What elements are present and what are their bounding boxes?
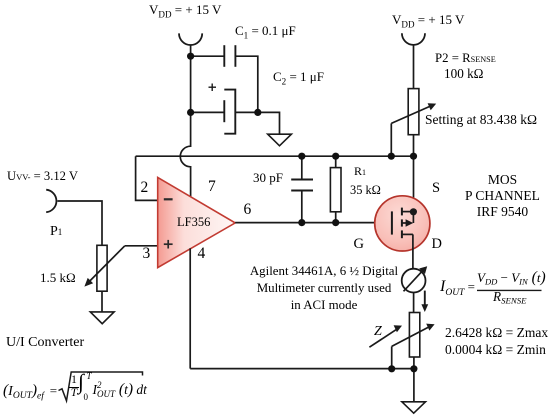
wire pin4 bbox=[189, 248, 191, 368]
label G bbox=[354, 237, 364, 252]
MOSFET channel bottom bbox=[402, 230, 413, 238]
capacitor C2 bbox=[224, 90, 235, 134]
transistor Q1 MOSFET body bbox=[375, 196, 430, 251]
pin 6 bbox=[244, 202, 252, 218]
label LF356 bbox=[177, 216, 210, 229]
label Zmin bbox=[445, 343, 546, 357]
label P2 bbox=[435, 52, 496, 65]
radical sign bbox=[59, 372, 143, 401]
integral limit hi bbox=[87, 372, 92, 381]
wire wiper down bbox=[390, 123, 392, 156]
wire bbox=[190, 45, 192, 56]
wire bbox=[413, 135, 415, 157]
ground bbox=[268, 134, 292, 146]
label VDD left bbox=[149, 3, 221, 17]
wire wiper down bbox=[391, 346, 393, 368]
wire bbox=[57, 201, 102, 245]
minus input bbox=[164, 198, 173, 200]
connector VDD right bbox=[402, 33, 425, 45]
MOSFET gate bar bbox=[391, 211, 393, 234]
formula integral bbox=[78, 371, 84, 394]
label C2 value bbox=[273, 70, 324, 84]
capacitor C1 bbox=[224, 45, 235, 67]
wire bbox=[413, 293, 415, 313]
ammeter bbox=[402, 266, 428, 292]
wire bbox=[101, 291, 103, 312]
fraction bar Iout formula bbox=[477, 289, 542, 291]
wiper arrow P2 bbox=[391, 103, 436, 123]
formula Iout denominator bbox=[493, 290, 526, 306]
MOSFET channel mid arrow bbox=[402, 219, 413, 227]
label P1 value bbox=[40, 271, 76, 285]
plus input bbox=[164, 240, 173, 249]
integral limit lo bbox=[84, 393, 89, 402]
connector Uvv bbox=[46, 190, 56, 213]
label R1 bbox=[354, 165, 366, 178]
connector VDD left bbox=[179, 33, 202, 45]
ground bbox=[90, 312, 114, 324]
op-amp U1 LF356 bbox=[158, 177, 236, 267]
potentiometer P1 bbox=[97, 245, 107, 291]
label setting bbox=[425, 113, 537, 127]
wire pin2 bbox=[136, 156, 158, 200]
formula radical fraction 1/T bbox=[69, 375, 80, 400]
MOSFET channel top bbox=[402, 208, 414, 216]
label D bbox=[432, 237, 442, 252]
wire feedback bbox=[136, 155, 414, 157]
potentiometer P2 bbox=[408, 89, 419, 135]
label Z bbox=[374, 325, 382, 340]
label Uvv bbox=[7, 170, 78, 183]
potentiometer Z bbox=[409, 313, 419, 358]
wire bottom rail bbox=[190, 368, 414, 370]
capacitor 30pF bbox=[291, 156, 313, 222]
current direction arrow bbox=[421, 291, 428, 312]
MOSFET source dot bbox=[410, 208, 417, 215]
wire pin3 bbox=[125, 245, 158, 247]
label VDD right bbox=[392, 13, 464, 27]
pin 3 bbox=[143, 246, 151, 262]
label R1 value bbox=[350, 184, 381, 197]
label 30pF bbox=[253, 171, 283, 185]
wire drain bbox=[412, 234, 414, 268]
ground bbox=[402, 402, 426, 413]
label Zmax bbox=[445, 326, 548, 340]
label P1 bbox=[50, 225, 62, 240]
pin 4 bbox=[198, 246, 206, 262]
label P2 value bbox=[444, 67, 483, 81]
annotation arrow Z bbox=[369, 325, 402, 347]
wiper arrow P1 bbox=[84, 246, 124, 287]
plus sign C2 bbox=[209, 84, 217, 92]
wire with hop bbox=[180, 112, 190, 197]
wire bbox=[413, 357, 415, 402]
wire to C1 bbox=[191, 55, 225, 57]
wiper arrow Z bbox=[392, 324, 435, 347]
formula integrand bbox=[93, 381, 147, 400]
wire to ground bbox=[258, 112, 280, 134]
pin 2 bbox=[141, 180, 149, 196]
formula Iout numerator bbox=[477, 270, 546, 287]
resistor R1 bbox=[330, 156, 341, 222]
pin 7 bbox=[208, 179, 216, 195]
label U/I converter bbox=[6, 336, 84, 351]
label MOS type bbox=[445, 172, 550, 220]
formula Iout lhs bbox=[440, 279, 475, 299]
wire bbox=[413, 45, 415, 89]
wire pin6 output bbox=[235, 222, 375, 224]
formula Iout-ef lhs bbox=[3, 383, 57, 402]
label multimeter note bbox=[234, 263, 414, 314]
wire bbox=[190, 56, 192, 112]
wire bbox=[191, 111, 225, 113]
label S bbox=[432, 181, 440, 196]
label C1 value bbox=[235, 24, 296, 38]
wire bbox=[235, 111, 257, 113]
wire bbox=[235, 56, 257, 112]
wire body to source bbox=[412, 212, 414, 223]
wire source bbox=[413, 156, 415, 212]
